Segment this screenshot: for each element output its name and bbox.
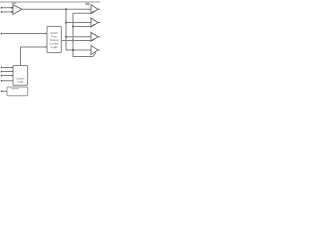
buffer Y3 <box>91 32 98 41</box>
top border <box>0 1 100 3</box>
glitch-free output control logic box U2 <box>47 26 61 52</box>
wire IN+ to op-amp <box>3 7 13 9</box>
wire clock bus vertical <box>66 9 91 50</box>
input pin pad bottom <box>1 91 3 93</box>
wire S1 to control logic <box>3 71 13 73</box>
wire trunk clock line <box>22 8 91 10</box>
op-amp input - mark <box>11 11 13 13</box>
arrowhead S1 <box>12 71 13 72</box>
wire output Y3 <box>98 36 100 38</box>
wire enable tap to buffer Y2 <box>73 26 91 28</box>
label smudge above buffer Y1 <box>86 3 90 5</box>
wire control input A to glitch-free logic <box>3 33 47 35</box>
enable arrow Y2 <box>92 24 95 26</box>
node enable bus crossing Y4 input <box>72 49 74 51</box>
node clock tap Y3 <box>65 36 67 38</box>
wire output Y1 <box>98 8 100 10</box>
wire S2 to control logic <box>3 75 13 77</box>
node junction trunk/clock bus <box>65 8 67 10</box>
wire output Y2 <box>98 22 100 24</box>
wire glitch-free logic output to enable bus and buffer Y3 <box>61 40 91 42</box>
bottom box U4 <box>7 87 28 96</box>
buffer Y4 <box>91 46 98 55</box>
input pin pad S0 <box>1 67 3 69</box>
text glitch free output control logic <box>49 31 59 49</box>
wire enable tap to buffer Y1 <box>73 13 96 56</box>
node clock tap Y2 <box>65 22 67 24</box>
enable arrow Y1 <box>92 11 95 13</box>
input pin pad IN+ <box>1 7 3 9</box>
buffer Y2 <box>91 18 98 27</box>
label smudge top-left <box>12 3 16 5</box>
wire control logic to glitch-free logic <box>21 47 48 66</box>
input pin pad control A <box>1 33 3 35</box>
op-amp U1 input receiver <box>13 5 22 15</box>
arrowhead into glitch-free logic A <box>45 33 47 34</box>
wire bottom input <box>3 90 7 92</box>
wire IN- to op-amp <box>3 11 13 13</box>
label smudge in bottom box <box>12 88 20 89</box>
input pin pad S2 <box>1 75 3 77</box>
svg-text:Logic: Logic <box>17 81 24 84</box>
op-amp input + mark <box>11 7 13 9</box>
arrowhead S0 <box>12 67 13 68</box>
input pin pad S1 <box>1 71 3 73</box>
arrowhead into glitch-free logic B <box>45 46 47 47</box>
wire clock tap to buffer Y2 <box>66 22 91 24</box>
wire S0 to control logic <box>3 67 13 69</box>
svg-text:Logic: Logic <box>51 45 58 49</box>
buffer Y1 <box>91 5 98 14</box>
enable arrow Y3 <box>92 39 95 41</box>
arrowhead S2 <box>12 75 13 76</box>
node enable tap Y3 <box>72 40 74 42</box>
text control logic <box>16 77 25 83</box>
input pin pad IN- <box>1 11 3 13</box>
node enable tap Y2 <box>72 26 74 28</box>
control logic box U3 <box>13 66 28 86</box>
wire S3 to control logic <box>3 80 13 82</box>
wire output Y4 <box>98 49 100 51</box>
input pin pad S3 <box>1 80 3 82</box>
wire clock tap to buffer Y3 <box>66 36 91 38</box>
